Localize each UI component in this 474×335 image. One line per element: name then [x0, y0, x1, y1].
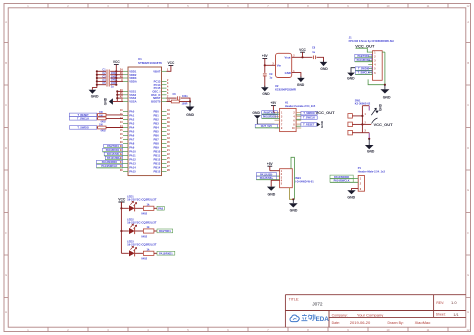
svg-text:PA8: PA8	[129, 142, 135, 146]
capacitor C5 1u	[96, 82, 118, 88]
net label T_SWDIO (H1 right)	[296, 111, 317, 115]
svg-text:1u: 1u	[269, 77, 272, 80]
ground (SW1)	[365, 139, 375, 154]
svg-text:D: D	[5, 146, 7, 150]
svg-text:1u: 1u	[111, 85, 114, 88]
node (J1 gnd)	[384, 84, 386, 86]
svg-text:Header-Female-2.54_2x5: Header-Female-2.54_2x5	[285, 104, 316, 108]
net label PA10/RXD1 (H1)	[262, 115, 280, 119]
svg-text:T_SWCLK: T_SWCLK	[303, 117, 315, 120]
resistor R3 1k	[141, 225, 154, 238]
ground (cap bank)	[89, 88, 99, 99]
svg-text:VCC_OUT: VCC_OUT	[374, 122, 394, 127]
wire	[352, 189, 359, 191]
ground (H1 right, rotated)	[317, 120, 324, 128]
svg-text:PA14: PA14	[129, 166, 136, 170]
svg-text:19-21/Y2C-CQ2R2L/3T: 19-21/Y2C-CQ2R2L/3T	[127, 220, 157, 224]
svg-text:1/1: 1/1	[453, 313, 458, 317]
ground (C8)	[320, 61, 329, 71]
svg-text:T_SWDIO: T_SWDIO	[77, 127, 88, 130]
capacitor C1 100n	[96, 69, 118, 75]
voltage regulator U2 XC6206P332MR	[272, 53, 296, 91]
svg-text:PA7: PA7	[129, 138, 135, 142]
svg-text:C: C	[5, 103, 7, 107]
svg-text:Your Company: Your Company	[357, 313, 383, 318]
net label T_SWCLK (H1 right)	[296, 116, 317, 120]
svg-text:GND: GND	[186, 113, 194, 117]
svg-text:G: G	[467, 273, 469, 277]
svg-text:VSSA: VSSA	[129, 100, 136, 104]
svg-text:GND: GND	[290, 209, 298, 213]
net label PA11/USB-	[104, 152, 123, 156]
svg-text:PA10/RXD1: PA10/RXD1	[159, 252, 173, 255]
wire	[181, 98, 190, 101]
svg-text:BOOT0: BOOT0	[151, 100, 161, 104]
net label PA12/USB+	[105, 156, 123, 160]
wire	[154, 252, 157, 254]
resistor R2 1k	[141, 203, 154, 216]
svg-text:0402: 0402	[141, 234, 147, 238]
ground (USB1 left)	[267, 187, 276, 197]
capacitor C9 1u	[263, 65, 273, 87]
capacitor C4 100n	[96, 79, 118, 85]
svg-text:VDD3: VDD3	[129, 76, 137, 80]
svg-text:VBAT: VBAT	[153, 69, 160, 73]
svg-text:+5V: +5V	[267, 162, 274, 166]
ground (NRST/BOOT0)	[186, 102, 195, 118]
svg-text:XC6206P332MR: XC6206P332MR	[275, 87, 296, 91]
ground (USB1)	[289, 199, 298, 212]
svg-text:PA11: PA11	[129, 154, 136, 158]
net label T_SWCLK (J1)	[355, 71, 372, 75]
svg-text:PA9/TXD1: PA9/TXD1	[159, 230, 171, 233]
svg-text:PA4: PA4	[129, 126, 135, 130]
svg-text:PA3: PA3	[129, 122, 135, 126]
net label T_SWDIO (J1)	[355, 67, 372, 71]
net label T_SWDIO	[69, 126, 96, 130]
svg-text:PA2: PA2	[129, 118, 135, 122]
svg-text:REV:: REV:	[436, 301, 444, 305]
svg-text:PA13: PA13	[129, 162, 136, 166]
svg-text:+5V: +5V	[271, 101, 278, 105]
svg-text:PB7: PB7	[154, 138, 160, 142]
svg-text:STM32F103C8T6: STM32F103C8T6	[138, 61, 162, 65]
svg-text:PA15: PA15	[129, 170, 136, 174]
wire	[292, 73, 301, 78]
wire (USB1 shield)	[290, 157, 295, 199]
svg-text:B: B	[467, 61, 469, 65]
svg-text:PB6: PB6	[154, 134, 160, 138]
svg-text:GND: GND	[383, 95, 391, 99]
svg-text:K2-3606S-02: K2-3606S-02	[355, 102, 371, 106]
capacitor C6 100n	[167, 93, 189, 100]
power flag +5V (USB1)	[267, 162, 280, 171]
svg-text:GND: GND	[104, 97, 108, 105]
net label PA9/TXD1 (LED)	[157, 229, 173, 233]
svg-text:OSC_I: OSC_I	[152, 90, 160, 94]
wire	[154, 230, 157, 232]
svg-text:PB10: PB10	[154, 150, 161, 154]
svg-text:GND: GND	[285, 71, 291, 75]
svg-text:TITLE:: TITLE:	[289, 297, 300, 301]
svg-text:PA12: PA12	[129, 158, 136, 162]
svg-text:PB12: PB12	[154, 158, 161, 162]
USB connector USB1 U-D-04WD-W-01	[280, 169, 315, 188]
svg-text:PB8: PB8	[154, 142, 160, 146]
net label OUT_5V0 (H1)	[255, 124, 279, 128]
svg-text:100R: 100R	[182, 103, 188, 106]
wire (VSS rail)	[116, 90, 123, 101]
header P1 Header-Male-2.54_1x3	[358, 166, 386, 191]
resistor R5 100	[98, 112, 106, 116]
svg-text:G: G	[5, 273, 7, 277]
resistor R7 100	[98, 125, 106, 129]
power flag VCC (VBAT)	[167, 61, 175, 71]
svg-text:GND: GND	[297, 83, 305, 87]
wire (LED rail)	[120, 202, 122, 253]
svg-text:T_SWDIO: T_SWDIO	[303, 112, 314, 115]
wire	[97, 127, 123, 129]
net label PA9/TXD1 (H1)	[262, 111, 280, 115]
svg-text:0402: 0402	[101, 120, 107, 123]
svg-text:PB0: PB0	[154, 110, 160, 114]
text 0402	[101, 120, 107, 132]
resistor R6 100	[98, 116, 106, 120]
svg-text:GND: GND	[347, 196, 355, 200]
svg-text:PB15: PB15	[154, 170, 161, 174]
net label PA10/RXD1 (J1)	[355, 58, 373, 62]
svg-text:VSS1: VSS1	[129, 90, 136, 94]
svg-text:EDA: EDA	[316, 316, 330, 323]
power flag +5V (H1)	[271, 101, 278, 112]
svg-text:H: H	[467, 310, 469, 314]
svg-text:PB1: PB1	[154, 114, 160, 118]
net label T_RESET	[69, 113, 96, 117]
node (SW1 gnd)	[368, 138, 370, 140]
net label PA14/SWCLK (P1)	[330, 179, 358, 183]
node Vin	[264, 64, 266, 66]
svg-text:VCC: VCC	[299, 48, 306, 52]
net label PA9/TXD1 (J1)	[355, 54, 373, 58]
net label PA14/SWCLK	[97, 164, 124, 168]
LED LED1 19-21/Y2C-CQ2R2L/3T	[121, 195, 156, 212]
svg-text:PB4: PB4	[154, 126, 160, 130]
svg-text:VCC: VCC	[168, 61, 175, 65]
svg-text:PB2: PB2	[154, 118, 160, 122]
power flag +5V (U2)	[262, 54, 269, 65]
net label T_SWCLK	[69, 117, 96, 121]
net label PA10/RXD1	[103, 148, 123, 152]
svg-text:D: D	[467, 146, 469, 150]
ground (J1 left)	[347, 68, 355, 81]
ground (P1)	[347, 190, 355, 199]
svg-text:VDDA: VDDA	[129, 80, 137, 84]
svg-text:0402: 0402	[141, 212, 147, 216]
net label T_RESET (H1 right)	[296, 123, 317, 127]
net flag VCC_OUT (J1)	[355, 43, 375, 52]
svg-text:0402: 0402	[141, 257, 147, 261]
svg-text:H: H	[5, 310, 7, 314]
svg-text:A: A	[5, 20, 7, 24]
svg-text:19-21/Y2C-CQ2R2L/3T: 19-21/Y2C-CQ2R2L/3T	[127, 243, 157, 247]
svg-text:VCC: VCC	[113, 60, 120, 64]
svg-text:VDD1: VDD1	[129, 69, 137, 73]
svg-text:0402: 0402	[101, 129, 107, 132]
LED LED2 19-21/Y2C-CQ2R2L/3T	[121, 217, 156, 234]
svg-text:GND: GND	[262, 92, 270, 96]
svg-text:GND: GND	[347, 77, 355, 81]
wire	[154, 207, 157, 209]
svg-text:GND: GND	[320, 67, 328, 71]
capacitor C3 100n	[96, 75, 118, 81]
wire (J1 pin6)	[368, 79, 385, 84]
svg-text:Header-Male-2.54_1x3: Header-Male-2.54_1x3	[358, 170, 386, 174]
svg-text:+5V: +5V	[262, 54, 269, 58]
svg-text:GND: GND	[379, 103, 383, 111]
power flag VCC (U2 out)	[299, 48, 306, 58]
svg-text:PA0: PA0	[129, 110, 135, 114]
resistor R4 1k	[141, 248, 154, 261]
svg-text:NRST: NRST	[153, 96, 161, 100]
svg-text:2019-06-20: 2019-06-20	[350, 320, 371, 325]
svg-text:PB5: PB5	[154, 130, 160, 134]
svg-text:PA9: PA9	[129, 146, 135, 150]
svg-text:VSS3: VSS3	[129, 96, 136, 100]
svg-text:A: A	[467, 20, 469, 24]
LED LED3 19-21/Y2C-CQ2R2L/3T	[121, 240, 156, 257]
svg-text:PA5: PA5	[129, 130, 135, 134]
wire	[97, 114, 123, 116]
svg-text:USB1: USB1	[294, 176, 301, 180]
svg-text:C: C	[467, 103, 469, 107]
net label PA10/RXD1 (LED)	[157, 251, 175, 255]
svg-text:U-D-04WD-W-01: U-D-04WD-W-01	[294, 179, 314, 183]
svg-text:VCC_OUT: VCC_OUT	[355, 43, 375, 48]
wire	[271, 180, 279, 186]
svg-text:T_RESET: T_RESET	[303, 124, 315, 127]
resistor R1 100R	[171, 100, 187, 106]
net label PA9/TXD1	[104, 144, 123, 148]
svg-text:GND: GND	[91, 95, 99, 99]
svg-text:Date:: Date:	[332, 321, 340, 325]
svg-text:VCC_OUT: VCC_OUT	[316, 110, 336, 115]
net label PA12/USB+ (USB1)	[256, 176, 279, 180]
svg-text:PA6: PA6	[129, 134, 135, 138]
ground (C9)	[261, 86, 270, 96]
wire	[292, 56, 313, 58]
svg-text:GND: GND	[252, 111, 260, 115]
svg-text:PA1: PA1	[129, 114, 135, 118]
svg-text:XiaoMao: XiaoMao	[415, 320, 432, 325]
svg-text:PA10: PA10	[129, 150, 136, 154]
svg-text:PB11: PB11	[154, 154, 161, 158]
connector J1 FPC 6p	[349, 35, 394, 80]
wire	[97, 117, 123, 119]
svg-text:PB3: PB3	[154, 122, 160, 126]
power flag VCC (LEDs)	[118, 198, 126, 209]
ground (H1 left)	[252, 111, 274, 124]
switch SW1 K2-3606S-02	[348, 98, 383, 138]
ground (U2 gnd pin)	[297, 77, 305, 87]
wire (J1 right)	[382, 52, 385, 85]
wire	[265, 64, 276, 66]
svg-text:Company:: Company:	[332, 313, 348, 317]
net label PA11/USB- (USB1)	[256, 173, 279, 177]
svg-text:Drawn By:: Drawn By:	[388, 321, 404, 325]
svg-text:1u: 1u	[312, 51, 315, 54]
svg-text:GND: GND	[367, 150, 375, 154]
svg-text:Vout: Vout	[284, 56, 290, 60]
net label PA13/SWDIO	[97, 160, 124, 164]
svg-text:J1: J1	[349, 35, 352, 39]
wire	[317, 57, 324, 62]
svg-text:GND: GND	[268, 193, 276, 197]
svg-text:19-21/Y2C-CQ2R2L/3T: 19-21/Y2C-CQ2R2L/3T	[127, 198, 157, 202]
svg-text:Sheet:: Sheet:	[436, 313, 446, 317]
svg-text:E: E	[5, 188, 7, 192]
net label PA13/SWDIO (P1)	[330, 175, 358, 179]
svg-text:Vin: Vin	[277, 63, 282, 67]
wire	[96, 71, 98, 87]
svg-text:T_SWCLK: T_SWCLK	[77, 117, 89, 120]
capacitor C2 100n	[96, 72, 118, 78]
wire	[115, 65, 117, 85]
svg-text:PB14: PB14	[154, 166, 161, 170]
svg-text:PB9: PB9	[154, 146, 160, 150]
svg-text:J072: J072	[312, 301, 323, 307]
wire	[116, 71, 123, 81]
IC U1 STM32F103C8T6	[120, 57, 170, 175]
net label PA8 (LED)	[157, 206, 164, 210]
header H1 Header-Female-2.54_2x5	[275, 101, 316, 132]
svg-text:GND: GND	[320, 120, 324, 128]
svg-text:B: B	[5, 61, 7, 65]
node (USB1 gnd)	[292, 198, 294, 200]
svg-text:PB13: PB13	[154, 162, 161, 166]
svg-text:VCC: VCC	[118, 198, 126, 202]
ground (J1)	[380, 85, 391, 100]
svg-text:P1: P1	[358, 166, 362, 170]
svg-text:PC14: PC14	[154, 83, 161, 87]
power flag VCC (cap bank)	[113, 60, 120, 64]
svg-text:E: E	[467, 188, 469, 192]
svg-text:1.0: 1.0	[451, 300, 457, 305]
ground (VSS, rotated)	[104, 97, 118, 105]
svg-text:FPC/4/6 0.5mm 6p CF3066ZD0R0-N: FPC/4/6 0.5mm 6p CF3066ZD0R0-NH	[349, 39, 394, 43]
capacitor C8 1u	[312, 46, 316, 59]
svg-text:PA8: PA8	[158, 207, 163, 210]
wire	[167, 100, 192, 102]
